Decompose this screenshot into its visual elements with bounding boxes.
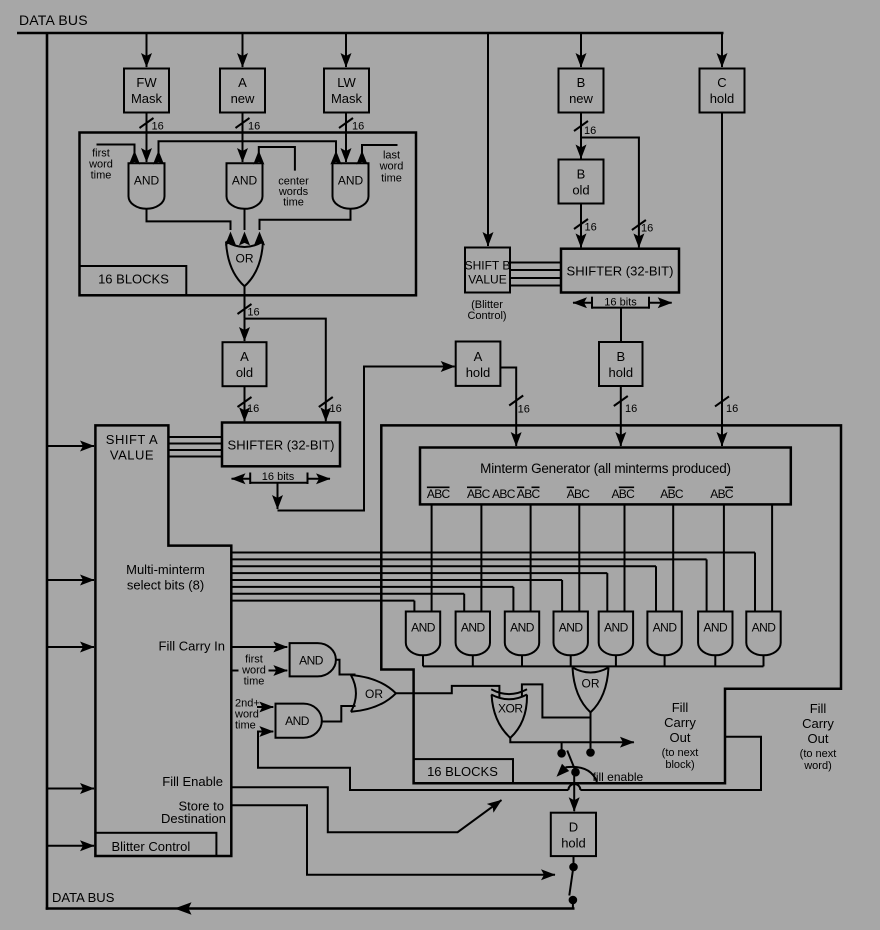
xor-gate XOR (fill) (491, 689, 527, 694)
and-gate AND-F (first word carry) (290, 643, 336, 676)
svg-text:LW: LW (337, 75, 356, 90)
wire D hold output stub (573, 856, 575, 863)
svg-text:AND: AND (510, 621, 535, 635)
wire LW Mask output with 16-bit tick (345, 113, 347, 163)
wire bus stub into select bits (47, 579, 94, 581)
svg-text:ABC: ABC (660, 487, 684, 501)
wire minterm drop 8 (771, 504, 773, 612)
box Blitter Control label (95, 833, 216, 856)
svg-text:AND: AND (604, 621, 629, 635)
svg-text:Fill Carry In: Fill Carry In (159, 639, 225, 654)
wire dot2 to bottom data bus (572, 900, 574, 909)
wire OR2 output down (590, 712, 592, 748)
and-gate AND-2W (2nd+ word carry) (276, 704, 322, 738)
wire AND2 output to OR1 (244, 209, 246, 230)
svg-text:time: time (283, 197, 304, 209)
svg-text:AND: AND (134, 174, 160, 188)
svg-text:ABC: ABC (612, 487, 636, 501)
wire bottom data bus horizontal (46, 907, 575, 910)
register FW Mask (124, 69, 169, 113)
wire shifter A output down-arrow (277, 483, 279, 509)
wire fill enable path with diagonal arrow (231, 787, 501, 832)
svg-text:(to next: (to next (662, 747, 699, 759)
svg-text:Multi-minterm: Multi-minterm (126, 562, 205, 577)
svg-text:Fill Enable: Fill Enable (162, 774, 223, 789)
svg-text:Out: Out (670, 730, 691, 745)
wire feedback from carry bus (right segment) (580, 737, 761, 790)
svg-text:word: word (379, 161, 404, 173)
wire AND row output bus (423, 665, 764, 667)
and-gate M8 (746, 612, 780, 656)
svg-text:hold: hold (466, 365, 491, 380)
wire shift A value lines (4) (168, 436, 222, 438)
box blitter control unit outline (95, 425, 231, 856)
svg-text:16: 16 (585, 222, 597, 234)
svg-text:Fill: Fill (672, 700, 689, 715)
svg-text:AND: AND (285, 714, 310, 728)
wire branch to shifter B right input with 16-bit tick (581, 138, 639, 248)
node first word time label (carry) (231, 670, 238, 672)
register SHIFT B VALUE (465, 248, 510, 293)
svg-text:16: 16 (584, 125, 596, 137)
wire drop from bus to LW Mask (345, 33, 347, 67)
svg-text:VALUE: VALUE (468, 273, 506, 287)
svg-text:SHIFT A: SHIFT A (106, 432, 158, 447)
svg-text:SHIFTER (32-BIT): SHIFTER (32-BIT) (228, 438, 335, 453)
svg-text:SHIFT B: SHIFT B (465, 259, 511, 273)
register D hold (551, 813, 596, 856)
svg-text:ABC: ABC (467, 487, 491, 501)
register B hold (599, 342, 643, 386)
wire B new to B old (580, 138, 582, 159)
wire minterm drop 4 (578, 504, 580, 612)
svg-text:16 BLOCKS: 16 BLOCKS (427, 764, 498, 779)
svg-text:Mask: Mask (331, 91, 363, 106)
wire AND1 output to OR1 (147, 209, 231, 230)
register B old (559, 160, 604, 204)
svg-text:FW: FW (136, 75, 157, 90)
svg-text:new: new (231, 91, 255, 106)
svg-text:ABC: ABC (567, 487, 591, 501)
wire bus stub into fill enable (47, 788, 94, 790)
and-gate M4 (554, 612, 588, 656)
svg-text:OR: OR (582, 677, 600, 691)
svg-text:D: D (569, 820, 578, 835)
wire OR-S output to XOR left input (396, 686, 500, 697)
switch store-to-destination blade (569, 871, 573, 896)
svg-text:AND: AND (653, 621, 678, 635)
register C hold (700, 69, 745, 113)
block SHIFTER (32-BIT) B (561, 249, 679, 293)
and-gate M7 (698, 612, 732, 656)
wire A hold output to minterm generator with 16-bit tick (500, 368, 516, 447)
wire shift B value lines (4) (510, 262, 561, 264)
node D hold switch dot 1 (569, 863, 578, 872)
svg-text:OR: OR (365, 687, 383, 701)
svg-text:word): word) (803, 760, 832, 772)
box 16 BLOCKS label (80, 266, 187, 295)
wire shifter B output to B hold (620, 308, 622, 342)
svg-text:Minterm Generator (all minterm: Minterm Generator (all minterms produced… (480, 461, 731, 476)
wire fill carry in line to AND-F (231, 646, 287, 648)
svg-text:AND: AND (752, 621, 777, 635)
svg-text:DATA BUS: DATA BUS (19, 12, 88, 28)
svg-text:16: 16 (248, 121, 260, 133)
or-gate OR1 (mask combiner) (226, 242, 263, 248)
wire A old output with 16-bit tick (244, 386, 246, 421)
svg-text:16: 16 (152, 121, 164, 133)
svg-text:16 bits: 16 bits (604, 296, 637, 308)
and-gate M3 (505, 612, 539, 656)
switch fill enable curved arrow (566, 767, 598, 782)
wire drop from bus to A new (242, 33, 244, 67)
and-gate AND3 (last word mask) (333, 163, 369, 209)
wire AND3 output to OR1 (260, 209, 351, 230)
wire select line drops into AND row (754, 553, 756, 613)
svg-text:time: time (381, 173, 402, 185)
register A new (220, 69, 265, 113)
node D hold switch dot 2 (569, 896, 578, 905)
wire drop from bus to SHIFT B VALUE (487, 33, 489, 246)
svg-text:ABC: ABC (710, 487, 734, 501)
svg-text:AND: AND (703, 621, 728, 635)
svg-text:time: time (244, 676, 265, 688)
svg-text:16: 16 (641, 223, 653, 235)
wire bus stub into fill carry in (47, 646, 94, 648)
svg-text:16: 16 (625, 403, 637, 415)
svg-text:hold: hold (561, 836, 586, 851)
wire minterm drop 6 (672, 504, 674, 612)
svg-text:C: C (717, 75, 726, 90)
block Minterm Generator (420, 448, 791, 505)
wire OR2 branch to XOR right input (522, 684, 591, 717)
svg-text:B: B (577, 75, 586, 90)
wire A new fan line (to AND1 and AND3) (159, 141, 337, 162)
wire bottom data bus arrow (left) (174, 902, 191, 915)
and-gate AND2 (center words) (227, 163, 263, 209)
wire drop from bus to FW Mask (146, 33, 148, 67)
svg-text:Control): Control) (467, 310, 506, 322)
or-gate OR-S (carry combiner) (351, 675, 356, 712)
svg-text:time: time (91, 170, 112, 182)
wire C hold output to minterm generator with 16-bit tick (721, 113, 723, 447)
wire first word time into AND-F (269, 670, 288, 672)
svg-text:16: 16 (247, 403, 259, 415)
svg-text:16: 16 (247, 307, 259, 319)
svg-text:AND: AND (338, 174, 364, 188)
svg-text:A: A (240, 349, 249, 364)
svg-text:SHIFTER (32-BIT): SHIFTER (32-BIT) (567, 264, 674, 279)
svg-text:16: 16 (726, 403, 738, 415)
wire OR1 output down to A old (244, 319, 246, 341)
wire AND-F output to OR-S (336, 660, 356, 675)
node fill carry out junction dot A (561, 742, 563, 750)
block SHIFTER (32-BIT) A (222, 423, 340, 467)
wire 2nd+ word time into AND-2W (257, 706, 273, 708)
wire drop from bus to B new (580, 33, 582, 67)
svg-text:OR: OR (236, 252, 254, 266)
and-gate M2 (456, 612, 490, 656)
wire minterm drop 2 (480, 504, 482, 612)
svg-text:ABC: ABC (492, 487, 516, 501)
wire FW Mask output with 16-bit tick (146, 113, 148, 163)
svg-text:16: 16 (330, 403, 342, 415)
svg-text:Destination: Destination (161, 811, 226, 826)
svg-text:old: old (572, 183, 589, 198)
svg-text:Carry: Carry (802, 716, 834, 731)
svg-text:A: A (238, 75, 247, 90)
register B new (559, 69, 604, 113)
box 16 BLOCKS enclosure (minterm section) (381, 425, 841, 783)
wire left data bus vertical (46, 33, 49, 910)
wire minterm drop 5 (624, 504, 626, 612)
node fill enable pivot dot C (571, 768, 580, 777)
wire feedback to AND-2W lower input (left segment) (258, 732, 568, 791)
box 16 BLOCKS enclosure (mask section) (80, 133, 417, 296)
wire bus stub into blitter control (47, 845, 94, 847)
wire 16 bits span under shifter B (573, 302, 592, 304)
svg-text:B: B (616, 349, 625, 364)
svg-text:16: 16 (352, 121, 364, 133)
svg-text:Blitter Control: Blitter Control (112, 839, 191, 854)
svg-text:ABC: ABC (427, 487, 451, 501)
and-gate M5 (599, 612, 633, 656)
wire center words time input to AND2 (259, 147, 295, 171)
svg-text:AND: AND (559, 621, 584, 635)
wire multi-minterm select lines (8) (231, 552, 755, 554)
box 16 BLOCKS label (minterm section) (414, 759, 513, 783)
switch fill enable blade (567, 751, 575, 772)
wire OR1 output with 16-bit tick (244, 286, 246, 318)
svg-text:hold: hold (609, 365, 634, 380)
svg-text:16 BLOCKS: 16 BLOCKS (98, 272, 169, 287)
svg-text:16: 16 (518, 404, 530, 416)
wire XOR output / fill carry out (to next block) (510, 738, 634, 742)
svg-text:XOR: XOR (498, 702, 523, 716)
wire B new output with 16-bit tick (580, 113, 582, 138)
and-gate M6 (647, 612, 681, 656)
register A hold (456, 342, 501, 386)
svg-text:DATA BUS: DATA BUS (52, 890, 115, 905)
svg-text:hold: hold (710, 91, 735, 106)
wire branch to shifter A right input (245, 319, 326, 422)
wire minterm drop 3 (530, 504, 532, 612)
svg-text:select bits (8): select bits (8) (127, 578, 204, 593)
svg-text:Carry: Carry (664, 715, 696, 730)
register A old (223, 342, 267, 386)
wire D-hold input from fill switch (573, 776, 575, 811)
svg-text:Fill: Fill (810, 701, 827, 716)
wire shifter A output to A hold (278, 367, 455, 511)
and-gate M1 (406, 612, 440, 656)
svg-text:(to next: (to next (800, 748, 837, 760)
svg-text:A: A (474, 349, 483, 364)
wire last word time input to AND3 (362, 145, 398, 162)
svg-text:AND: AND (411, 621, 436, 635)
wire feedback hop over D-hold drop (568, 784, 580, 790)
wire first word time input to AND1 (97, 145, 135, 163)
wire minterm drop 1 (431, 504, 433, 612)
svg-text:AND: AND (232, 174, 258, 188)
svg-text:16 bits: 16 bits (262, 471, 295, 483)
svg-text:fill enable: fill enable (593, 770, 644, 784)
or-gate OR2 (minterm combiner) (573, 668, 609, 673)
wire minterm drop 7 (723, 504, 725, 612)
wire 16 bits span under shifter A (232, 478, 251, 480)
wire B old output to shifter B with 16-bit tick (580, 204, 582, 248)
svg-text:B: B (577, 167, 586, 182)
wire AND-2W output to OR-S (321, 706, 356, 722)
svg-text:Out: Out (808, 731, 829, 746)
svg-text:AND: AND (461, 621, 486, 635)
and-gate AND1 (first word mask) (129, 163, 165, 209)
svg-text:old: old (236, 365, 253, 380)
wire A new output with 16-bit tick (242, 113, 244, 163)
svg-text:time: time (235, 720, 256, 732)
svg-text:VALUE: VALUE (110, 448, 154, 463)
wire bus stub into SHIFT A VALUE (47, 445, 94, 447)
register LW Mask (324, 69, 369, 113)
svg-text:Mask: Mask (131, 91, 163, 106)
node fill carry out junction dot B (586, 748, 595, 757)
wire top data bus horizontal (17, 32, 724, 35)
svg-text:block): block) (665, 759, 694, 771)
svg-text:AND: AND (299, 654, 324, 668)
svg-text:ABC: ABC (517, 487, 541, 501)
wire store to destination path (231, 805, 555, 874)
wire B hold output to minterm generator with 16-bit tick (620, 386, 622, 446)
svg-text:new: new (569, 91, 593, 106)
wire drop from bus to C hold (721, 33, 723, 67)
